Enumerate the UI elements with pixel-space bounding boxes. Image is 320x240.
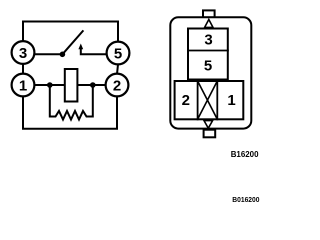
- svg-text:2: 2: [113, 78, 121, 95]
- svg-text:2: 2: [182, 92, 190, 109]
- svg-text:B16200: B16200: [231, 149, 259, 159]
- svg-text:3: 3: [19, 45, 27, 62]
- svg-text:5: 5: [114, 46, 122, 63]
- svg-text:3: 3: [204, 32, 212, 49]
- svg-text:1: 1: [19, 78, 27, 95]
- svg-text:B016200: B016200: [232, 195, 259, 204]
- svg-text:1: 1: [227, 92, 235, 109]
- svg-text:5: 5: [204, 58, 212, 75]
